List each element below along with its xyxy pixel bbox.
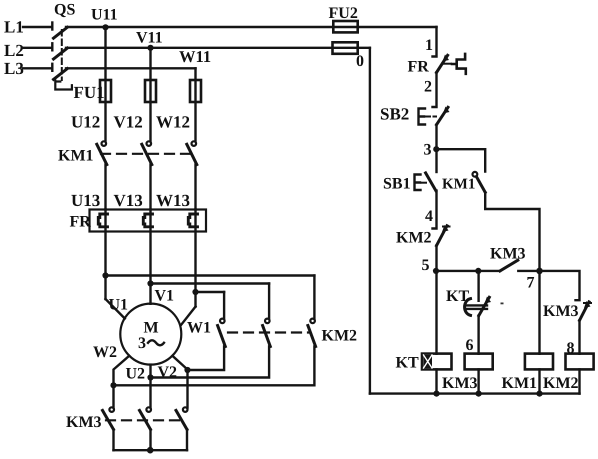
FR trip symbol (452, 54, 466, 74)
wire KT coil bottom (435, 369, 437, 393)
svg-text:FU2: FU2 (329, 5, 358, 22)
svg-text:V12: V12 (114, 113, 143, 132)
wire bottom control rail (370, 392, 580, 394)
wire KT branch drop (477, 271, 479, 301)
node U11 (102, 24, 108, 30)
svg-text:W11: W11 (179, 47, 211, 66)
svg-text:KM1: KM1 (442, 177, 475, 193)
node KM1 bottom (536, 391, 542, 397)
coil KM2 (566, 354, 594, 370)
contactor KM2 main pole 3 (114, 276, 316, 386)
contact KT delayed NO (465, 297, 491, 316)
wire U through FR (104, 210, 106, 300)
node KT bottom (433, 391, 439, 397)
svg-text:V11: V11 (136, 30, 163, 47)
wire U1 to KM2 pole3 (106, 274, 315, 276)
svg-text:W2: W2 (93, 344, 117, 361)
svg-text:U1: U1 (109, 297, 129, 314)
svg-text:FR: FR (408, 59, 430, 76)
svg-text:FR: FR (70, 214, 92, 231)
svg-text:KM1: KM1 (58, 148, 94, 165)
switch QS linkage dashed (61, 30, 63, 80)
fuse FU2 line 0 (333, 42, 358, 54)
wire W phase drop (194, 68, 196, 141)
svg-text:3: 3 (424, 142, 432, 159)
svg-text:4: 4 (425, 208, 433, 225)
coil KT (422, 354, 452, 370)
wire L2 input (23, 47, 52, 49)
wire KM1 coil bottom (538, 369, 540, 393)
node 3 (433, 146, 439, 152)
wire rail 5 (435, 246, 437, 354)
svg-text:W12: W12 (156, 113, 190, 132)
wire U phase drop (104, 27, 106, 141)
svg-text:2: 2 (424, 79, 432, 96)
node V1 line (147, 280, 153, 286)
contactor KM2 main pole 1 (188, 292, 226, 370)
switch QS handle (55, 81, 72, 90)
svg-text:7: 7 (527, 275, 535, 292)
svg-text:KT: KT (396, 355, 419, 372)
svg-text:QS: QS (54, 2, 75, 19)
wire V2 terminal (172, 356, 187, 408)
node 5 (433, 268, 439, 274)
wire KM3 NC to KM2 coil (578, 320, 580, 353)
node W1 line (192, 289, 198, 295)
wire control rail top (433, 27, 437, 57)
svg-text:L1: L1 (4, 17, 24, 36)
wire L1 bus to FU2 (66, 26, 437, 28)
FR heater V (143, 214, 152, 227)
contactor KM3 main pole 2 (140, 407, 152, 450)
relay contact FR NC (437, 55, 452, 73)
fuse FU1 U (100, 80, 111, 102)
node KT branch (475, 268, 481, 274)
wire W through FR (194, 210, 196, 307)
contact KM2 NC (437, 225, 450, 246)
node V2 (184, 367, 190, 373)
node V11 (147, 45, 153, 51)
fuse FU1 W (190, 80, 201, 102)
wire node7 to KM3 NC (540, 271, 580, 300)
contactor KM1 main pole V (142, 141, 152, 209)
svg-text:U11: U11 (91, 7, 118, 24)
wire L1 input (23, 26, 52, 28)
fuse FU1 V (145, 80, 156, 102)
wire node5 to KM3 contact (436, 270, 500, 272)
wire U1 diagonal into motor (106, 299, 125, 319)
wire W2 terminal (114, 356, 130, 408)
wire KM2 coil bottom (578, 369, 580, 393)
svg-text:U12: U12 (71, 113, 100, 132)
svg-text:KM3: KM3 (490, 246, 526, 263)
FR heater U (98, 214, 107, 227)
contactor KM1 main pole U (97, 141, 107, 209)
wire W1 diagonal into motor (181, 307, 196, 325)
fuse FU2 line 1 (333, 21, 357, 32)
svg-text:U13: U13 (71, 191, 100, 210)
svg-text:V1: V1 (155, 288, 175, 305)
svg-text:KM2: KM2 (396, 230, 432, 247)
wire rail 2 (433, 73, 437, 108)
thermal relay FR box (90, 210, 207, 232)
contactor KM1 linkage dashed (101, 153, 191, 155)
wire KM3 contact to node7 (518, 270, 539, 272)
wire V1 to KM2 pole2 (151, 282, 270, 284)
contactor KM2 linkage dashed (228, 331, 310, 333)
svg-text:1: 1 (425, 37, 433, 54)
svg-text:V13: V13 (114, 191, 143, 210)
wire L3 input (23, 67, 52, 69)
button SB2 start (419, 107, 450, 125)
coil KM1 (525, 354, 553, 370)
svg-text:U2: U2 (126, 365, 146, 382)
svg-text:SB2: SB2 (380, 105, 409, 124)
contactor KM3 linkage dashed (106, 419, 184, 421)
wire left control rail (369, 48, 371, 394)
coil KM3 (465, 354, 493, 370)
svg-text:0: 0 (356, 53, 364, 70)
wire node3 branch (436, 149, 485, 171)
wire L3 bus to W11 (66, 67, 196, 69)
svg-text:KM3: KM3 (66, 414, 102, 431)
wire W1 to KM2 pole1 (196, 291, 225, 293)
button SB1 stop (415, 173, 436, 191)
scan speck (501, 303, 504, 305)
node star point (147, 447, 154, 454)
motor M circle (120, 304, 181, 365)
contact KM3 aux NO (500, 260, 518, 271)
svg-text:W1: W1 (187, 320, 211, 337)
svg-text:L2: L2 (4, 41, 24, 60)
wire L2 bus to FU2 (66, 47, 370, 49)
node 7 (536, 268, 543, 275)
node KM3 bottom (476, 391, 482, 397)
contactor KM2 main pole 2 (151, 284, 271, 378)
svg-text:KM2: KM2 (543, 375, 579, 392)
svg-text:SB1: SB1 (383, 176, 411, 193)
svg-text:FU1: FU1 (74, 83, 105, 102)
svg-text:KM1: KM1 (502, 375, 538, 392)
wire KM3 star point (114, 449, 188, 451)
svg-text:W13: W13 (156, 191, 190, 210)
wire rail 3 (435, 125, 437, 172)
wire V through FR (149, 210, 151, 304)
wire U2 terminal (149, 365, 151, 408)
svg-text:KM2: KM2 (322, 327, 358, 344)
switch QS pole 1 (52, 23, 67, 39)
switch QS pole 3 (52, 64, 67, 80)
svg-text:6: 6 (466, 337, 474, 354)
svg-text:KT: KT (446, 288, 469, 305)
svg-text:KM3: KM3 (543, 303, 579, 320)
contact KM1 aux NO (473, 172, 486, 192)
svg-text:5: 5 (422, 257, 430, 274)
svg-text:L3: L3 (4, 59, 24, 78)
node U2 (147, 374, 153, 380)
contactor KM3 main pole 1 (103, 407, 114, 450)
contactor KM3 main pole 3 (176, 407, 188, 450)
wire KT contact to KM3 coil (477, 316, 479, 354)
wire rail 4 (433, 191, 437, 229)
svg-text:3: 3 (138, 335, 146, 352)
wire KM1 aux branch (485, 192, 539, 353)
node U1 line (102, 272, 108, 278)
FR heater W (188, 214, 197, 227)
svg-text:KM3: KM3 (442, 375, 478, 392)
node W2 (110, 382, 116, 388)
contactor KM1 main pole W (187, 141, 197, 209)
wire KM3 coil bottom (477, 369, 479, 393)
switch QS pole 2 (52, 43, 67, 59)
contact KM3 NC (580, 301, 592, 320)
wire V phase drop (149, 48, 151, 141)
